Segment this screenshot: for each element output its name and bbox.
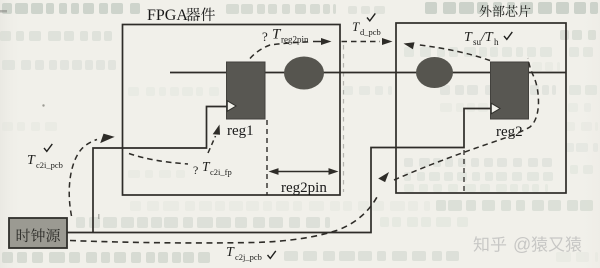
svg-text:T: T [27,153,36,168]
dashed arc from FPGA clock pin to label [129,154,188,165]
buffer ellipse inside FPGA [284,57,324,90]
svg-text:T: T [352,19,360,34]
dashed arrow Td_pcb between chips [342,41,381,43]
dashed curve to reg2 wrapping its right side [394,58,539,180]
buffer ellipse inside external chip [416,57,453,88]
label: 外部芯片 [480,5,492,17]
svg-text:c2i_pcb: c2i_pcb [36,160,63,170]
register reg1 [227,62,266,119]
wire: clock net to external chip / reg2 [67,109,491,233]
reg2 clock triangle [491,103,500,113]
svg-text:d_pcb: d_pcb [360,27,381,37]
svg-text:reg1: reg1 [227,123,254,139]
dashed line at FPGA pin boundary [343,45,345,192]
dashed arrow Tsu/Th pointing to external chip input pin [418,45,490,61]
watermark 知乎@猿又猿 [474,235,582,255]
label: Tc2i_pcb with check [44,144,52,152]
svg-text:?: ? [193,163,198,177]
dashed arrow up to reg1 clock [208,136,216,153]
clock source box 时钟源 [9,218,67,248]
svg-text:@: @ [513,235,531,255]
dashed extension of reg1 output pin [266,120,268,195]
scan specks [0,10,7,13]
svg-text:c2i_fp: c2i_fp [210,167,232,177]
dashed arrow Tc2i_pcb clock source to FPGA clock pin [69,140,97,217]
svg-text:reg2pin: reg2pin [281,35,309,45]
reg1 clock triangle [227,101,236,111]
svg-text:/T: /T [480,30,494,45]
dashed extension below reg2 clock elbow [463,150,465,192]
external chip box [396,23,566,193]
svg-text:?: ? [262,29,268,44]
svg-text:reg2pin: reg2pin [281,180,327,196]
wire: data signal line [170,72,566,74]
FPGA device box [123,25,341,196]
dashed arrow ?Treg2pin from reg1 output to FPGA pin [250,42,311,59]
measurement arrow reg2pin [272,171,335,173]
wire: clock branch to FPGA / reg1 [93,107,227,233]
svg-text:FPGA: FPGA [147,7,188,24]
dashed curve Tc2j_pcb along bottom rising to external clock pin [70,197,377,243]
svg-text:T: T [464,30,473,45]
svg-text:T: T [226,245,235,260]
register reg2 [491,62,529,119]
svg-text:c2j_pcb: c2j_pcb [235,252,262,262]
svg-text:h: h [494,37,499,47]
